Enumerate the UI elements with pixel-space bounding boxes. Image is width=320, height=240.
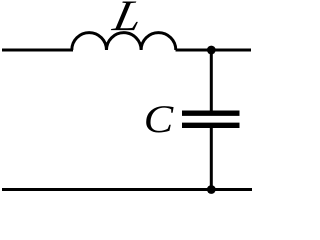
wire top-right xyxy=(176,49,252,52)
capacitor C xyxy=(182,113,240,125)
inductor L xyxy=(72,33,176,50)
label C xyxy=(146,106,173,132)
node bottom junction xyxy=(207,185,216,194)
wire capacitor upper lead xyxy=(210,50,213,111)
node top junction xyxy=(207,46,216,55)
label L xyxy=(111,2,138,31)
wire capacitor lower lead xyxy=(210,128,213,190)
wire bottom xyxy=(2,188,252,191)
wire top-left xyxy=(2,49,73,52)
